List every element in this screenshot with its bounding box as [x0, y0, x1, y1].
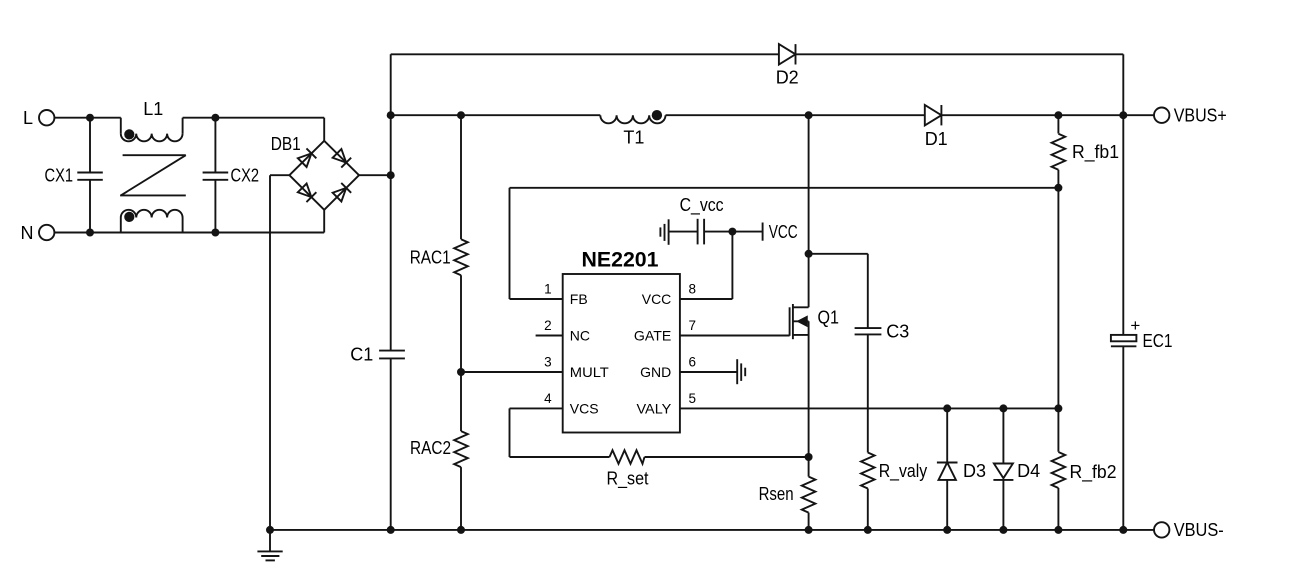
svg-text:VBUS+: VBUS+ — [1174, 106, 1227, 126]
svg-text:RAC1: RAC1 — [410, 248, 451, 268]
svg-text:D4: D4 — [1017, 461, 1040, 481]
terminal VBUS- — [1154, 522, 1169, 537]
inductor T1 — [600, 115, 665, 123]
svg-text:NE2201: NE2201 — [582, 249, 659, 272]
wire: left DC bus vertical — [390, 54, 392, 350]
svg-text:R_fb1: R_fb1 — [1072, 142, 1119, 163]
choke L1 (common-mode) — [120, 118, 122, 134]
svg-text:R_valy: R_valy — [879, 461, 928, 482]
svg-text:T1: T1 — [623, 128, 644, 148]
svg-text:8: 8 — [689, 282, 697, 297]
pin 2 NC stub — [536, 335, 563, 337]
diode D3 (pointing up) — [946, 408, 948, 462]
node: ground rail junctions — [266, 526, 274, 534]
svg-text:Rsen: Rsen — [759, 484, 794, 504]
resistor RAC1 — [460, 115, 462, 239]
ground (IC GND, pointing right) — [736, 359, 738, 384]
L1 phase dot (top winding) — [124, 129, 134, 139]
pin 7 GATE wire — [680, 335, 790, 337]
svg-text:7: 7 — [689, 318, 697, 333]
node: N / CX1 junction — [86, 229, 94, 237]
capacitor CX2 — [214, 118, 216, 173]
svg-text:4: 4 — [544, 391, 552, 406]
pin 3 MULT wire — [461, 371, 563, 373]
svg-text:VCC: VCC — [769, 222, 798, 242]
wire: top rail with D2 — [391, 53, 779, 55]
diode D2 — [779, 44, 796, 64]
bridge rectifier DB1 — [289, 141, 324, 175]
node: drain / snubber branch — [805, 250, 813, 258]
node: FB / divider junction — [1054, 184, 1062, 192]
svg-text:RAC2: RAC2 — [410, 438, 451, 458]
node: L / CX1 junction — [86, 114, 94, 122]
capacitor CX1 — [89, 118, 91, 173]
diode D1 — [925, 105, 942, 125]
node: R_fb1 top — [1054, 111, 1062, 119]
terminal L — [39, 110, 54, 125]
wire: FB net to R_fb divider — [510, 187, 1059, 189]
svg-text:R_fb2: R_fb2 — [1070, 462, 1117, 483]
svg-text:L1: L1 — [143, 99, 163, 119]
svg-text:3: 3 — [544, 355, 552, 370]
node: VALY line dots — [943, 404, 951, 412]
svg-text:D3: D3 — [963, 461, 986, 481]
pin 1 FB stub and wire to FB net — [510, 298, 563, 300]
svg-text:+: + — [1130, 316, 1140, 335]
node: right bus / rail — [1119, 111, 1127, 119]
svg-text:DB1: DB1 — [271, 134, 301, 154]
terminal VBUS+ — [1154, 108, 1169, 123]
wire: AC line from terminal L — [54, 117, 120, 119]
svg-text:C_vcc: C_vcc — [680, 195, 724, 216]
svg-text:D2: D2 — [776, 67, 799, 87]
resistor Rsen — [802, 477, 816, 513]
capacitor C3 — [855, 327, 882, 329]
node: VCC junction — [728, 228, 736, 236]
node: RAC1 branch — [457, 111, 465, 119]
node: MULT junction — [457, 368, 465, 376]
T1 phase dot — [652, 110, 662, 120]
wire: Q1 drain to rail — [808, 115, 810, 307]
svg-text:1: 1 — [544, 282, 552, 297]
svg-text:6: 6 — [689, 355, 697, 370]
svg-text:FB: FB — [570, 291, 588, 307]
terminal N — [39, 225, 54, 240]
wire: right bus vertical — [1122, 115, 1124, 335]
pin 4 VCS wire to R_set — [510, 407, 563, 409]
node: Q1 drain branch on rail — [805, 111, 813, 119]
svg-text:2: 2 — [544, 318, 552, 333]
node: CX2 bottom junction — [211, 229, 219, 237]
svg-text:5: 5 — [689, 391, 697, 406]
pin 8 VCC stub — [680, 298, 733, 300]
svg-text:GATE: GATE — [634, 328, 671, 344]
svg-text:NC: NC — [570, 328, 590, 344]
wire: second rail — [391, 114, 601, 116]
transistor Q1 (N-MOSFET) — [789, 307, 791, 336]
wire: bridge plus to DC bus — [359, 174, 391, 176]
svg-text:N: N — [21, 223, 34, 243]
wire: R_set to Q1 source — [645, 456, 809, 458]
capacitor EC1 (polarized) — [1111, 335, 1137, 341]
pin 5 VALY wire — [680, 407, 1059, 409]
wire: bridge minus to ground rail — [270, 174, 289, 176]
svg-text:VBUS-: VBUS- — [1174, 520, 1224, 540]
svg-text:EC1: EC1 — [1143, 331, 1173, 351]
node: bridge output on bus — [387, 171, 395, 179]
node: R_set / source junction — [805, 453, 813, 461]
L1 phase dot (bottom winding) — [124, 212, 134, 222]
node: bus/rail junction — [387, 111, 395, 119]
svg-text:VCS: VCS — [570, 400, 599, 416]
pin 6 GND wire — [680, 371, 737, 373]
svg-text:MULT: MULT — [570, 364, 609, 380]
svg-text:C3: C3 — [886, 322, 909, 342]
resistor RAC2 — [460, 372, 462, 431]
svg-text:VALY: VALY — [637, 400, 672, 416]
svg-text:D1: D1 — [925, 129, 948, 149]
resistor R_valy — [861, 453, 875, 489]
resistor R_set — [610, 450, 645, 464]
wire: L1 to bridge top — [183, 117, 325, 119]
resistor R_fb1 — [1057, 115, 1059, 133]
IC U1 NE2201 body — [563, 274, 680, 433]
wire: AC neutral line — [54, 232, 324, 234]
svg-text:VCC: VCC — [642, 291, 672, 307]
ground (mains earth) — [269, 530, 271, 552]
svg-text:CX1: CX1 — [45, 165, 74, 185]
node: CX2 top junction — [211, 114, 219, 122]
wire: C3 to R_valy — [867, 334, 869, 452]
capacitor C_vcc — [669, 231, 698, 233]
svg-text:R_set: R_set — [607, 469, 649, 490]
svg-text:CX2: CX2 — [231, 165, 260, 185]
L1 core Z symbol — [123, 154, 186, 156]
power terminal VCC — [762, 223, 764, 241]
svg-text:L: L — [23, 108, 33, 128]
svg-text:Q1: Q1 — [818, 307, 840, 327]
wire: bottom ground rail — [270, 529, 1154, 531]
capacitor C1 — [379, 350, 405, 352]
svg-text:C1: C1 — [350, 345, 373, 365]
ground (C_vcc return, pointing left) — [668, 219, 670, 245]
wire: Q1 source down to Rsen — [808, 321, 810, 476]
resistor R_fb2 — [1052, 452, 1066, 488]
diode D4 (pointing down) — [1002, 408, 1004, 463]
svg-text:GND: GND — [640, 364, 671, 380]
wire: snubber branch to C3 — [809, 253, 868, 255]
